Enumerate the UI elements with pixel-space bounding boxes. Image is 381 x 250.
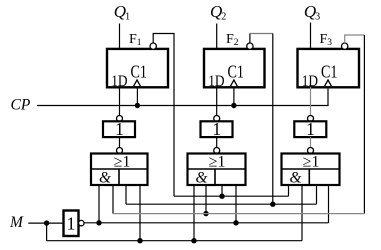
wire M input [28, 222, 63, 224]
inverter U3 box [294, 121, 326, 137]
svg-text:M: M [9, 214, 24, 231]
wire gate G3 input 3 [316, 185, 318, 204]
inverter U1 box [103, 121, 135, 137]
flip-flop F2 inverted output bubble [247, 43, 253, 49]
svg-text:≥1: ≥1 [114, 153, 131, 170]
gate G3 output bubble [308, 148, 314, 154]
wire U3 input [310, 137, 312, 148]
svg-text:F1: F1 [129, 32, 142, 48]
wire gate G2 input 3 [221, 185, 223, 196]
svg-text:1D: 1D [302, 73, 318, 90]
wire gate G1 input 3 [125, 185, 127, 204]
svg-text:1: 1 [306, 119, 315, 139]
wire line B2 (Q3-bar distribution) [113, 213, 364, 215]
junction G1-in4 to M line [137, 238, 142, 243]
gate G2 output bubble [214, 148, 220, 154]
wire line B1 (Q2-bar distribution) [126, 203, 317, 205]
wire gate G2 input 1 [193, 185, 195, 241]
inverter U4 output bubble [79, 220, 84, 225]
svg-text:1: 1 [67, 214, 76, 234]
svg-text:1: 1 [115, 119, 124, 139]
svg-text:Q2: Q2 [210, 2, 226, 23]
wire F3 D input from inverter [310, 87, 312, 116]
inverter U1 output bubble [117, 116, 123, 122]
inverter U4 box (M inverter) [64, 211, 79, 237]
wire gate G1 input 4 [139, 185, 141, 241]
wire Q3-bar feedback vertical [363, 35, 365, 214]
svg-text:F3: F3 [320, 32, 333, 48]
flip-flop F2 dynamic clock triangle [230, 80, 237, 86]
flip-flop F3 box [298, 49, 360, 87]
svg-text:&: & [99, 170, 111, 187]
wire gate G1 input 1 [98, 185, 100, 223]
gate G2 cell divider [214, 169, 216, 185]
flip-flop F3 dynamic clock triangle [325, 80, 332, 86]
svg-text:C1: C1 [321, 61, 338, 81]
wire Q1-bar feedback [153, 34, 174, 197]
gate G2 OR/AND compound box [188, 154, 246, 186]
svg-text:&: & [290, 170, 302, 187]
gate G3 OR/AND compound box [282, 154, 340, 186]
wire Q3-bar feedback horizontal [345, 35, 365, 43]
inverter U2 box [201, 121, 233, 137]
flip-flop F2 box [204, 49, 265, 87]
wire U1 input [119, 137, 121, 148]
gate G1 OR/AND compound box [91, 154, 148, 186]
svg-text:≥1: ≥1 [209, 153, 226, 170]
svg-text:1: 1 [212, 119, 221, 139]
wire F2 D input from inverter [216, 87, 218, 116]
wire gate G3 input 2 [301, 185, 303, 241]
wire F1 D input from inverter [119, 87, 121, 116]
svg-text:Q1: Q1 [114, 2, 130, 23]
flip-flop F1 box [107, 49, 168, 87]
wire gate G3 input 4 [328, 185, 330, 223]
flip-flop F1 inverted output bubble [150, 43, 156, 49]
wire CP stub to F1 clock [136, 87, 138, 106]
gate G1 cell divider [118, 169, 120, 185]
wire Q2-bar feedback top segment [250, 33, 273, 35]
junction CP-F1 [135, 103, 140, 108]
svg-text:Q3: Q3 [304, 2, 320, 23]
gate G1 row divider [91, 168, 148, 170]
wire Q3 output [310, 23, 312, 50]
wire line D (M distribution) [47, 240, 302, 242]
svg-text:C1: C1 [228, 61, 245, 81]
junction G2-in3 to line A [219, 194, 224, 199]
flip-flop F1 dynamic clock triangle [134, 80, 141, 86]
wire CP stub to F2 clock [233, 87, 235, 106]
wire U2 input [216, 137, 218, 148]
junction G2-in4 to M-bar line [233, 220, 238, 225]
wire gate G3 input 1 [288, 185, 290, 196]
gate G2 row divider [188, 168, 246, 170]
wire line C (M-bar distribution) [84, 222, 329, 224]
wire Q1 output [119, 24, 121, 50]
svg-text:F2: F2 [226, 32, 239, 48]
wire gate G2 input 2 [205, 185, 207, 214]
junction G2-in1 to M line [191, 238, 196, 243]
svg-text:CP: CP [11, 97, 31, 114]
junction CP-F2 [231, 103, 236, 108]
inverter U3 output bubble [308, 116, 314, 122]
svg-text:C1: C1 [131, 61, 148, 81]
wire M down to line D [46, 223, 48, 241]
inverter U2 output bubble [214, 116, 220, 122]
junction G2-in2 to line B2 [203, 211, 208, 216]
svg-text:&: & [196, 170, 208, 187]
gate G3 row divider [282, 168, 340, 170]
wire gate G1 input 2 [112, 185, 114, 214]
wire line A (Q1-bar distribution) [174, 195, 289, 197]
wire Q2 output [216, 24, 218, 50]
wire Q2-bar feedback drop [272, 34, 274, 205]
gate G3 cell divider [308, 169, 310, 185]
junction G1-in1 to M-bar line [96, 220, 101, 225]
junction Q2-bar to line B1 [270, 202, 275, 207]
gate G1 output bubble [117, 148, 123, 154]
flip-flop F3 inverted output bubble [342, 43, 348, 49]
junction M split [44, 220, 49, 225]
wire CP bus [37, 87, 328, 106]
svg-text:≥1: ≥1 [303, 153, 320, 170]
wire gate G2 input 4 [235, 185, 237, 223]
wire Q2-bar feedback riser [249, 34, 251, 44]
